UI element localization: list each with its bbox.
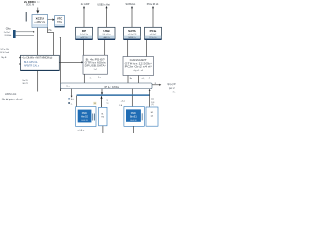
svg-text:cfg x1 . x4: cfg x1 . x4 (133, 70, 143, 72)
svg-text:2x Ref: 2x Ref (4, 32, 10, 34)
wire wiz down-right (60, 37, 62, 91)
wire bus up box3 (149, 90, 151, 107)
svg-text:+4+(: +4+( (121, 100, 126, 102)
wiz bottom edge (21, 69, 60, 71)
arrow bar to bus (101, 89, 103, 93)
svg-text:APB/TR CAL x: APB/TR CAL x (24, 65, 40, 68)
svg-text:DP: DP (82, 29, 86, 33)
top label USB (97, 3, 110, 27)
title label DDR4 (24, 0, 40, 7)
svg-text:BLS GPSI 4L: BLS GPSI 4L (24, 62, 38, 64)
svg-text:30.72: 30.72 (22, 83, 28, 85)
svg-text:SATA/Gn: SATA/Gn (126, 3, 136, 6)
wire clk2 (16, 35, 34, 37)
svg-text:(1): (1) (151, 104, 154, 106)
svg-text:(x): (x) (151, 98, 154, 100)
stub bar legend (71, 89, 73, 97)
svg-text:Clks: Clks (6, 27, 12, 30)
svg-text:x1 ,: x1 , (142, 78, 146, 80)
svg-text:CAN/UART: CAN/UART (130, 59, 148, 62)
wire C down (127, 40, 129, 57)
svg-text:P L: I/Os: P L: I/Os (105, 86, 121, 89)
svg-text:PCIe Rt x4: PCIe Rt x4 (147, 3, 159, 6)
stub GT2 to bus (127, 76, 129, 84)
svg-text:Bx: Bx (130, 78, 132, 80)
svg-text:M.: M. (151, 112, 154, 114)
box B USB (98, 27, 115, 40)
top label SATA (126, 3, 136, 27)
svg-text:24x bd pairs + clk sel: 24x bd pairs + clk sel (2, 98, 23, 101)
top label DP (81, 3, 90, 27)
wire bus to fmc2 (131, 96, 133, 107)
svg-text:(.): (.) (37, 2, 39, 4)
arrow bar right (152, 84, 159, 86)
arrow bus to hdr (101, 96, 103, 107)
wire fmc2 down (132, 126, 134, 133)
top label PCIe (147, 3, 159, 27)
wire B down (104, 40, 106, 55)
wire wiz right (59, 61, 81, 63)
svg-text:pw: 2: pw: 2 (169, 88, 175, 90)
header box (99, 107, 107, 126)
svg-text:1 x²: 1 x² (93, 68, 97, 71)
svg-text:LA 0:16: LA 0:16 (130, 119, 136, 122)
svg-text:TPG: TPG (57, 21, 62, 24)
svg-text:My B: My B (1, 57, 7, 59)
stub GT1 to bus (83, 74, 85, 83)
svg-text:3p(+) IP.: 3p(+) IP. (167, 84, 176, 86)
svg-text:DP.USB.SATA¹: DP.USB.SATA¹ (85, 65, 106, 68)
PL IO bar (61, 83, 152, 89)
svg-text:HmC0: HmC0 (81, 116, 89, 119)
arrow down to SoC (36, 8, 39, 14)
dimm bar (26, 12, 27, 22)
svg-text:72 x: 72 x (66, 86, 70, 88)
svg-text:LVDS LCnt: LVDS LCnt (5, 93, 17, 96)
svg-text:2 s: 2 s (98, 77, 101, 79)
box D PCIe (145, 27, 162, 40)
connector J1 (13, 30, 16, 38)
label 16 (93, 102, 96, 105)
FMC group 2 (124, 107, 144, 127)
svg-text:B: 4x PS-B?: B: 4x PS-B? (86, 60, 106, 62)
svg-text:PCIe Gn2 x4 rt²: PCIe Gn2 x4 rt² (125, 65, 152, 68)
PL bus blue (77, 94, 150, 96)
box A DP (76, 27, 93, 40)
wire A down (83, 40, 85, 55)
svg-text:2x mDP: 2x mDP (81, 3, 90, 6)
wiz input arrows (19, 57, 21, 59)
svg-text:BmE1: BmE1 (130, 115, 137, 118)
stub bar below (60, 89, 62, 91)
legend square 1 (68, 98, 74, 105)
svg-text:GTR trx 6Gb/s: GTR trx 6Gb/s (85, 62, 107, 65)
svg-text:GTH trx 12.5Gb¹: GTH trx 12.5Gb¹ (125, 62, 152, 65)
arrow SoC to VTC (48, 18, 55, 21)
svg-text:USB3 x Hst: USB3 x Hst (97, 3, 110, 6)
wire wiz down (37, 71, 39, 92)
box3 M2 (146, 107, 158, 126)
GT box 2 (123, 57, 154, 76)
wire VTC down (53, 32, 55, 55)
svg-text:LA 0:33: LA 0:33 (81, 119, 87, 122)
box C SATA (124, 27, 141, 40)
clock list labels (0, 49, 10, 59)
svg-text:Hd: Hd (101, 116, 104, 118)
wire SoC down (37, 28, 39, 56)
SoC box U1 XCZU (32, 15, 48, 28)
svg-text:• 1x Clk Wiz + MX7 MMCM (p): • 1x Clk Wiz + MX7 MMCM (p) (22, 57, 53, 59)
GT box 1 (83, 55, 108, 74)
svg-text:XCZU: XCZU (36, 16, 44, 20)
wire header down (102, 126, 104, 133)
svg-text:B S Cmk: B S Cmk (0, 52, 10, 54)
wire clk1 (16, 31, 34, 33)
svg-text:1/2 x Clk: 1/2 x Clk (0, 49, 9, 51)
svg-text:33 MHz: 33 MHz (4, 35, 11, 37)
svg-text:2x DDR4: 2x DDR4 (24, 0, 36, 4)
svg-text:(2): (2) (151, 115, 154, 117)
svg-text:Sx 2L: Sx 2L (22, 80, 28, 82)
wire bar to fmc2 (131, 89, 133, 95)
svg-text:PCIe: PCIe (150, 29, 157, 33)
clock wizard box (21, 55, 60, 70)
svg-text:SATA: SATA (128, 29, 137, 33)
wire D down (146, 40, 148, 57)
svg-text:Hs.: Hs. (49, 30, 53, 32)
svg-text:x / 4L s: x / 4L s (78, 130, 85, 132)
svg-text:USB: USB (103, 29, 110, 33)
wire bus to fmc1 (75, 96, 77, 107)
svg-text:m..: m.. (173, 92, 176, 94)
VTC box (55, 16, 65, 28)
svg-text:SOD. M: SOD. M (26, 5, 34, 7)
FMC group 1 (76, 107, 96, 127)
svg-text:+ ABV 2L: + ABV 2L (34, 20, 45, 24)
